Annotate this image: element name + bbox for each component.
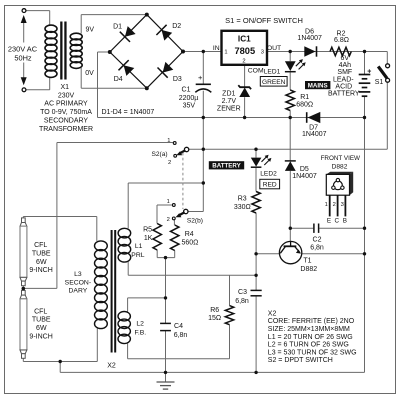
svg-text:9-INCH: 9-INCH — [29, 334, 52, 341]
svg-text:6W: 6W — [36, 325, 47, 332]
svg-text:1: 1 — [224, 49, 227, 55]
svg-text:3: 3 — [261, 49, 264, 55]
svg-text:X2: X2 — [107, 363, 116, 370]
svg-text:D3: D3 — [173, 76, 182, 83]
svg-text:S2 = DPDT SWITCH: S2 = DPDT SWITCH — [268, 357, 333, 364]
svg-text:680Ω: 680Ω — [296, 101, 313, 108]
svg-text:1: 1 — [167, 138, 170, 144]
svg-text:L2 = 6 TURN OF 26 SWG: L2 = 6 TURN OF 26 SWG — [268, 342, 349, 349]
svg-text:R1: R1 — [300, 94, 309, 101]
svg-text:C3: C3 — [238, 289, 247, 296]
svg-text:1N4007: 1N4007 — [297, 35, 322, 42]
svg-text:+: + — [198, 73, 203, 82]
svg-text:50Hz: 50Hz — [14, 54, 32, 63]
svg-text:+: + — [367, 69, 371, 76]
svg-text:C2: C2 — [313, 237, 322, 244]
svg-text:TUBE: TUBE — [32, 250, 51, 257]
svg-text:2: 2 — [242, 58, 245, 64]
svg-text:L2: L2 — [136, 321, 144, 328]
svg-text:B: B — [343, 218, 347, 225]
svg-text:6.8Ω: 6.8Ω — [334, 37, 349, 44]
svg-text:2: 2 — [168, 160, 171, 166]
svg-text:330Ω: 330Ω — [234, 204, 251, 211]
svg-text:CORE: FERRITE (EE) 2NO: CORE: FERRITE (EE) 2NO — [268, 318, 355, 325]
svg-text:PRL: PRL — [131, 252, 144, 259]
svg-text:F.B.: F.B. — [134, 330, 146, 337]
svg-text:D2: D2 — [172, 23, 181, 30]
svg-text:X2: X2 — [268, 310, 277, 317]
svg-text:LED2: LED2 — [260, 170, 277, 177]
svg-text:SECONDARY: SECONDARY — [44, 117, 89, 124]
svg-text:6,8n: 6,8n — [174, 332, 188, 339]
svg-text:0V: 0V — [85, 70, 94, 77]
svg-text:230V AC: 230V AC — [8, 45, 38, 54]
svg-text:R6: R6 — [210, 307, 219, 314]
svg-text:S1 = ON/OFF SWITCH: S1 = ON/OFF SWITCH — [225, 16, 303, 25]
svg-text:R4: R4 — [185, 231, 194, 238]
svg-text:BATTERY: BATTERY — [328, 90, 360, 97]
svg-text:4Ah: 4Ah — [339, 62, 352, 69]
svg-text:9V: 9V — [86, 27, 95, 34]
svg-text:9-INCH: 9-INCH — [29, 267, 52, 274]
svg-text:C1: C1 — [182, 86, 191, 93]
svg-text:OUT: OUT — [267, 45, 281, 52]
svg-text:ZENER: ZENER — [217, 105, 241, 112]
svg-text:DARY: DARY — [69, 288, 88, 295]
svg-text:1N4007: 1N4007 — [302, 131, 327, 138]
svg-text:L3: L3 — [74, 271, 82, 278]
svg-text:LEAD-: LEAD- — [333, 76, 354, 83]
svg-text:X1: X1 — [61, 84, 70, 91]
svg-text:R5: R5 — [143, 226, 152, 233]
svg-text:D4: D4 — [114, 76, 123, 83]
svg-text:IC1: IC1 — [238, 34, 251, 43]
svg-text:C4: C4 — [174, 323, 183, 330]
svg-text:2: 2 — [333, 202, 336, 208]
svg-text:230V: 230V — [58, 92, 75, 99]
svg-text:3: 3 — [341, 202, 344, 208]
svg-text:L3 = 530 TURN OF 32 SWG: L3 = 530 TURN OF 32 SWG — [268, 349, 357, 356]
svg-text:E: E — [327, 218, 331, 225]
svg-text:S2(b): S2(b) — [187, 217, 203, 224]
svg-text:2.7V: 2.7V — [222, 98, 237, 105]
svg-text:L1: L1 — [135, 243, 143, 250]
svg-text:AC PRIMARY: AC PRIMARY — [44, 101, 88, 108]
svg-text:2200µ: 2200µ — [179, 95, 199, 102]
svg-text:TO 0-9V, 750mA: TO 0-9V, 750mA — [40, 109, 92, 116]
svg-text:SMF: SMF — [337, 69, 352, 76]
svg-text:RED: RED — [263, 182, 277, 189]
svg-text:S2(a): S2(a) — [151, 151, 167, 158]
svg-text:D5: D5 — [300, 166, 309, 173]
svg-text:ZD1: ZD1 — [222, 90, 235, 97]
svg-text:2: 2 — [167, 217, 170, 223]
svg-text:CFL: CFL — [34, 308, 47, 315]
svg-text:S1: S1 — [375, 79, 384, 86]
svg-text:T1: T1 — [303, 257, 311, 264]
svg-text:SECON-: SECON- — [65, 279, 91, 286]
svg-text:D1-D4 = 1N4007: D1-D4 = 1N4007 — [102, 109, 155, 116]
svg-text:SIZE: 25MM×13MM×8MM: SIZE: 25MM×13MM×8MM — [268, 326, 350, 333]
svg-text:1: 1 — [167, 199, 170, 205]
svg-text:R3: R3 — [238, 195, 247, 202]
svg-text:560Ω: 560Ω — [181, 240, 198, 247]
svg-text:1N4007: 1N4007 — [292, 173, 317, 180]
svg-text:6,8n: 6,8n — [235, 298, 249, 305]
svg-text:6W: 6W — [36, 259, 47, 266]
svg-text:C: C — [335, 218, 340, 225]
svg-text:1K: 1K — [144, 235, 153, 242]
svg-text:CFL: CFL — [34, 242, 47, 249]
svg-text:7805: 7805 — [234, 46, 255, 56]
svg-text:IN: IN — [213, 45, 220, 52]
svg-text:15Ω: 15Ω — [208, 315, 221, 322]
svg-text:COM: COM — [248, 67, 264, 74]
svg-text:ACID: ACID — [335, 83, 352, 90]
svg-text:D1: D1 — [113, 24, 122, 31]
svg-text:35V: 35V — [183, 102, 196, 109]
svg-text:D882: D882 — [332, 164, 348, 171]
svg-text:L1 = 20 TURN OF 26 SWG: L1 = 20 TURN OF 26 SWG — [268, 334, 353, 341]
svg-text:LED1: LED1 — [264, 69, 281, 76]
svg-text:FRONT VIEW: FRONT VIEW — [321, 155, 360, 162]
svg-text:1: 1 — [325, 202, 328, 208]
svg-text:TRANSFORMER: TRANSFORMER — [39, 126, 93, 133]
svg-text:6,8n: 6,8n — [310, 244, 324, 251]
svg-text:BATTERY: BATTERY — [212, 163, 241, 170]
svg-text:TUBE: TUBE — [32, 317, 51, 324]
svg-text:MAINS: MAINS — [308, 82, 328, 89]
svg-text:GREEN: GREEN — [262, 79, 286, 86]
svg-text:D882: D882 — [300, 266, 317, 273]
